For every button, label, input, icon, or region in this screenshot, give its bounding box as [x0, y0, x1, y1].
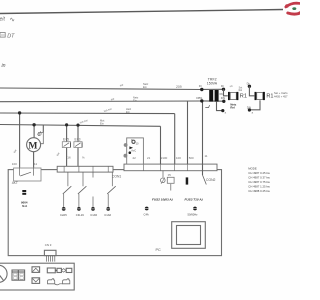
svg-text:50/60Hz: 50/60Hz — [188, 212, 199, 216]
LED D1 — [132, 140, 135, 143]
svg-text:CH 4987 0.37 kw: CH 4987 0.37 kw — [248, 175, 270, 179]
transformer winding bar right — [215, 90, 219, 102]
motor M1 — [27, 138, 41, 152]
fuse bar FUS3 — [186, 177, 189, 184]
legend relay chain icon — [47, 268, 55, 273]
svg-text:C4A: C4A — [144, 212, 149, 216]
svg-text:℅: ℅ — [82, 156, 85, 160]
interference suppressor sub-box — [127, 138, 144, 164]
svg-text:DN: DN — [221, 96, 225, 100]
svg-text:MODE: MODE — [248, 166, 257, 170]
drop wire 100 — [174, 114, 176, 165]
svg-text:CON2: CON2 — [206, 178, 216, 182]
svg-text:CH 4987 0.25 kw: CH 4987 0.25 kw — [248, 171, 270, 175]
svg-text:Set + Carlo: Set + Carlo — [274, 91, 288, 95]
motor ratings table — [248, 166, 270, 193]
node AvC — [129, 151, 132, 154]
switch contact below CON1 col2 — [82, 172, 84, 186]
E-box drop wires — [66, 125, 68, 166]
svg-text:3N: 3N — [219, 92, 222, 96]
legend box — [0, 263, 74, 290]
junction dot E3 — [76, 124, 79, 127]
junction dot E5 — [65, 123, 68, 126]
svg-text:E×3: E×3 — [75, 138, 81, 142]
legend envelope down icon — [32, 278, 40, 284]
svg-text:Dr: Dr — [199, 84, 202, 88]
svg-text:DT: DT — [7, 34, 15, 40]
legend iron icon 1 — [48, 279, 55, 284]
sensor node C4A — [144, 207, 150, 217]
svg-text:ws-sw: ws-sw — [103, 107, 113, 114]
svg-text:Rel: Rel — [239, 89, 243, 92]
svg-text:sw: sw — [119, 82, 124, 87]
fuse box — [167, 177, 174, 183]
node DBS — [200, 99, 203, 102]
heater Ex3 box — [74, 142, 82, 148]
relay R1a feed wire — [224, 89, 228, 96]
node Dr primary — [200, 88, 203, 91]
svg-text:ws: ws — [229, 84, 234, 88]
diode arrow — [129, 146, 133, 149]
legend link wire — [55, 284, 63, 285]
two-line net labels above buses — [100, 82, 149, 126]
junction dot on L4 — [32, 123, 35, 126]
svg-text:sw: sw — [55, 151, 61, 157]
connector CN3 — [44, 250, 56, 255]
svg-text:11: 11 — [34, 162, 37, 166]
sensor node 50/60 — [188, 207, 199, 217]
relay R1b feed node Dr — [248, 85, 251, 88]
svg-text:a: a — [252, 111, 254, 114]
indicator dot a — [124, 143, 128, 147]
svg-text:FUS3 T10 A): FUS3 T10 A) — [185, 197, 203, 201]
wire motor to 4KT — [33, 152, 35, 168]
bus L3 — [0, 112, 175, 115]
relay R1b feed wire — [249, 86, 254, 96]
drop wire 11 from transformer — [202, 101, 204, 175]
svg-text:CH 4988 0.25 kw: CH 4988 0.25 kw — [248, 189, 270, 193]
svg-text:CH 4987 0.75 kw: CH 4987 0.75 kw — [248, 180, 270, 184]
4KT pin stubs — [19, 168, 21, 176]
svg-text:C1A5: C1A5 — [90, 213, 97, 217]
svg-text:100: 100 — [12, 162, 17, 166]
svg-text:4405 + 457: 4405 + 457 — [274, 94, 288, 98]
svg-text:209: 209 — [176, 85, 182, 89]
switch contact below CON1 col1 — [67, 172, 69, 186]
svg-text:DN: DN — [247, 105, 251, 109]
svg-text:PC: PC — [156, 248, 162, 252]
svg-text:AvC: AvC — [131, 149, 136, 153]
DT legend box — [0, 33, 5, 38]
heater Ex5 box — [62, 142, 70, 148]
4KT switch contact — [20, 172, 31, 176]
PCB inner module inner square — [177, 226, 201, 245]
wire drop to capacitor — [42, 125, 44, 133]
svg-text:CH 4987 1.25 kw: CH 4987 1.25 kw — [248, 184, 270, 188]
title text "eit ~" — [0, 16, 16, 23]
drop wire 500 — [187, 101, 189, 164]
svg-text:11: 11 — [205, 154, 208, 158]
svg-text:4KT: 4KT — [12, 181, 18, 185]
relay R1a coil — [228, 92, 230, 100]
drop wire 2100 — [160, 126, 162, 164]
ground tick — [205, 105, 209, 107]
svg-text:CN 3: CN 3 — [45, 243, 52, 247]
svg-text:in: in — [2, 63, 6, 69]
top border line — [0, 10, 283, 14]
svg-text:Ein: Ein — [143, 85, 147, 89]
svg-text:Ein: Ein — [100, 122, 104, 126]
node return a — [221, 109, 224, 112]
wire drop to motor — [33, 125, 35, 138]
svg-text:100: 100 — [176, 156, 181, 160]
relay R1a return wire — [217, 102, 223, 111]
transformer winding bar left — [209, 90, 213, 102]
svg-text:±5: ±5 — [168, 173, 171, 177]
legend table icon — [12, 270, 25, 280]
wire drop to 4KT — [19, 113, 21, 168]
indicator dot b — [124, 154, 128, 158]
svg-text:a: a — [225, 112, 227, 115]
tiny wire labels on buses — [12, 82, 124, 156]
buzzer circle — [161, 178, 166, 183]
bus L4 — [0, 125, 161, 127]
wire below CON1 col3 — [92, 172, 94, 177]
svg-text:D: D — [131, 138, 133, 142]
svg-text:C2A5: C2A5 — [60, 213, 67, 217]
legend iron icon 2 — [63, 279, 70, 284]
relay R1b return wire — [249, 100, 260, 110]
svg-text:R1: R1 — [240, 94, 247, 100]
node DN secondary — [222, 100, 225, 103]
svg-text:ws-sw: ws-sw — [79, 118, 89, 125]
bus L2 — [0, 100, 202, 103]
svg-text:FUS2 10(63 A): FUS2 10(63 A) — [152, 197, 173, 201]
switch contact below CON1 col4 — [111, 172, 113, 186]
svg-text:R1: R1 — [266, 94, 273, 100]
svg-text:500: 500 — [189, 156, 194, 160]
svg-text:DBS: DBS — [196, 96, 202, 100]
svg-text:ieit: ieit — [0, 17, 6, 23]
bus L1 — [0, 88, 202, 90]
svg-text:16: 16 — [67, 156, 71, 160]
capacitor / thermo contact on motor — [38, 133, 43, 144]
PCB inner module outer square — [172, 222, 206, 249]
svg-text:sw: sw — [12, 148, 18, 154]
connector CON1 strip — [57, 166, 113, 172]
sensor node C1A6 — [104, 207, 111, 217]
svg-text:Dr: Dr — [221, 84, 224, 88]
svg-text:150VA: 150VA — [207, 81, 218, 85]
relay 4KT box — [14, 168, 41, 181]
logo S — [285, 3, 302, 14]
svg-text:21: 21 — [147, 156, 151, 160]
earth connector symbol — [21, 190, 28, 208]
CON2 pin labels — [133, 154, 208, 160]
svg-text:∿: ∿ — [10, 16, 16, 23]
main PCB outline — [8, 170, 221, 256]
junction dot on L3 — [18, 111, 21, 114]
svg-text:C3L19: C3L19 — [76, 213, 84, 217]
svg-text:22: 22 — [133, 156, 137, 160]
relay R1b coil — [255, 92, 257, 100]
svg-text:Ein: Ein — [126, 110, 130, 114]
thermal fuse cluster below CON2 — [162, 171, 164, 178]
svg-text:Rel: Rel — [230, 105, 235, 109]
node Dr secondary — [222, 88, 225, 91]
svg-text:Ein: Ein — [133, 99, 137, 103]
svg-text:Dr: Dr — [247, 81, 250, 85]
legend envelope up icon — [32, 267, 40, 273]
transformer secondary rail — [202, 100, 224, 102]
svg-text:M: M — [28, 141, 37, 152]
node DN return — [248, 108, 251, 111]
connector CON2 strip — [124, 164, 217, 171]
switch contact at 11 — [203, 175, 207, 185]
svg-text:2100: 2100 — [161, 156, 168, 160]
svg-text:C1A6: C1A6 — [104, 213, 111, 217]
transformer primary rail — [202, 88, 224, 90]
sensor node C3L19 — [76, 207, 84, 217]
svg-text:E×5: E×5 — [63, 138, 69, 142]
svg-text:CON1: CON1 — [112, 175, 121, 179]
sensor node C2A5 — [60, 207, 67, 217]
sensor node C1A5 — [90, 207, 97, 217]
legend dial icon — [0, 265, 7, 282]
